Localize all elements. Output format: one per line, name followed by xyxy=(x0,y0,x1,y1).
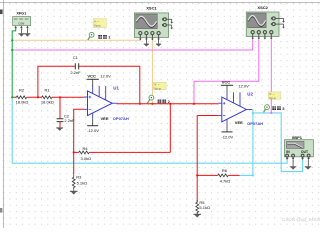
wire: magenta XSC2 pin2 to U1 output node xyxy=(194,40,259,104)
left edge watermark glyph bottom xyxy=(0,208,2,213)
wire: magenta input to XSC2 channel A xyxy=(12,40,253,51)
ground below R5 xyxy=(193,214,201,215)
node input to XSC1-A tap xyxy=(11,39,13,41)
svg-text:U1: U1 xyxy=(113,86,119,91)
bode plotter XBP1 xyxy=(285,140,314,157)
wire: red U2 minus input feedback xyxy=(197,116,218,214)
function generator XFG1 xyxy=(13,17,31,26)
node U1 output R4 tap xyxy=(169,103,171,105)
svg-text:OUT: OUT xyxy=(301,150,308,154)
ground below R3 xyxy=(70,191,78,192)
capacitor C1 xyxy=(75,63,78,69)
node R6 to output net xyxy=(252,174,254,176)
ground at XSC1 pin4 xyxy=(158,40,160,44)
svg-text:XFG1: XFG1 xyxy=(16,11,26,15)
svg-text:12.0V: 12.0V xyxy=(100,73,111,78)
node R4-R3 divider node xyxy=(73,151,75,153)
probe input1 xyxy=(88,37,90,41)
wire: cyan R6 right lead to U2 output vertical xyxy=(240,174,253,176)
wire: red input chain through R2 R1 to U1 plus input xyxy=(12,96,84,98)
oscilloscope XSC2 xyxy=(246,12,279,37)
node U1 output XSC2 tap xyxy=(193,103,195,105)
wire: red U1 output to U2 plus input xyxy=(118,103,219,105)
capacitor C2 xyxy=(57,119,64,122)
svg-text:XSC2: XSC2 xyxy=(257,5,268,10)
svg-text:R1: R1 xyxy=(44,88,50,93)
svg-text:12.0V: 12.0V xyxy=(238,83,249,88)
VEE supply U1 xyxy=(92,118,94,126)
svg-text:-12.0V: -12.0V xyxy=(221,135,233,140)
XFG1 pins xyxy=(15,26,17,28)
probe output2 xyxy=(147,99,150,103)
VCC supply U1 xyxy=(92,79,94,86)
node U2 output XSC2 tap xyxy=(270,112,272,114)
probe readout box input1 xyxy=(93,19,106,28)
wire: orange XSC1 channel B down to U1 output xyxy=(151,40,153,104)
wire: cyan input node down and across to XBP1 IN xyxy=(12,97,287,163)
probe label output3 xyxy=(272,106,276,110)
svg-text:18.0kΩ: 18.0kΩ xyxy=(41,100,54,105)
ground at XBP1 OUT minus xyxy=(307,160,309,167)
resistor R5 xyxy=(196,200,199,215)
probe output3 xyxy=(264,109,266,113)
node node B R1-C2 xyxy=(59,96,61,98)
wire: red R6 left lead from R5 node xyxy=(197,174,239,176)
op-amp U1 OP07AH xyxy=(88,91,113,116)
svg-text:-12.0V: -12.0V xyxy=(87,128,99,133)
node U1 output C1 feedback xyxy=(139,103,141,105)
VCC supply U2 xyxy=(226,85,228,92)
svg-text:XSC1: XSC1 xyxy=(146,6,157,11)
svg-text:R4: R4 xyxy=(82,146,88,151)
op-amp U2 OP07AH xyxy=(222,97,247,122)
svg-text:OP07AH: OP07AH xyxy=(247,121,263,126)
svg-text:VEE: VEE xyxy=(101,116,109,121)
svg-text:Vp-p:: Vp-p: xyxy=(94,24,101,28)
sheet border ruler top xyxy=(0,2,320,4)
wire: orange input to XSC1 channel A xyxy=(12,39,140,42)
svg-text:OP07AH: OP07AH xyxy=(113,116,129,121)
probe label input1 xyxy=(98,35,102,39)
wire: cyan U2 output net xyxy=(252,109,254,175)
svg-text:VCC: VCC xyxy=(87,73,96,78)
svg-text:U2: U2 xyxy=(247,92,253,97)
svg-text:2.2nF: 2.2nF xyxy=(70,70,81,75)
resistor R6 xyxy=(218,174,228,177)
wire: red U1 minus input feedback divider xyxy=(74,109,85,190)
node U1 output XSC1-B tap xyxy=(151,103,153,105)
svg-text:Vp-p:: Vp-p: xyxy=(154,86,161,90)
svg-text:4.7kΩ: 4.7kΩ xyxy=(220,179,231,184)
node R5-R6 divider node xyxy=(196,174,198,176)
wire: red C1 feedback loop xyxy=(38,66,140,104)
svg-text:C1: C1 xyxy=(73,55,79,60)
svg-text:R6: R6 xyxy=(222,168,228,173)
svg-text:VEE: VEE xyxy=(235,120,243,125)
ground at XBP1 IN minus xyxy=(292,160,294,167)
resistor R2 xyxy=(16,96,26,99)
node node A R2-R1-C1 xyxy=(37,96,39,98)
svg-text:CSDN @qq_54039720: CSDN @qq_54039720 xyxy=(282,217,320,222)
wire: green from XFG1 plus terminal down to R2 input node xyxy=(12,29,16,98)
VEE supply U2 xyxy=(226,124,228,131)
ruler tick marks top xyxy=(10,2,319,4)
resistor R1 xyxy=(42,96,52,99)
svg-text:2.2nF: 2.2nF xyxy=(64,118,75,123)
svg-text:VCC: VCC xyxy=(222,79,231,84)
ground at XFG1 minus xyxy=(26,29,28,33)
resistor R4 xyxy=(79,151,89,154)
resistor R3 xyxy=(72,175,75,190)
ruler tick marks left xyxy=(3,10,5,224)
svg-text:XBP1: XBP1 xyxy=(292,135,303,140)
sheet border ruler left xyxy=(2,0,4,228)
svg-text:18.0kΩ: 18.0kΩ xyxy=(16,100,29,105)
ground at XFG1 COM xyxy=(20,29,22,33)
ground at XSC1 pin2 xyxy=(145,40,147,44)
svg-text:COM: COM xyxy=(18,21,24,25)
node input node at R2 xyxy=(11,96,13,98)
oscilloscope XSC1 xyxy=(134,13,168,38)
node U2 output branch xyxy=(252,112,254,114)
svg-text:3.0kΩ: 3.0kΩ xyxy=(81,156,92,161)
probe label output2 xyxy=(158,100,162,104)
svg-text:5.1kΩ: 5.1kΩ xyxy=(199,205,210,210)
probe readout box output2 xyxy=(153,82,166,89)
left edge watermark glyph top xyxy=(0,10,3,15)
wire: red R4 leads xyxy=(74,104,171,153)
svg-text:5.1kΩ: 5.1kΩ xyxy=(77,181,88,186)
ground below C2 xyxy=(56,126,63,129)
wire: magenta XSC2 pin4 down to U2 output node xyxy=(270,40,272,113)
svg-text:R3: R3 xyxy=(76,175,82,180)
probe readout box output3 xyxy=(268,92,280,99)
wire: red C2 tap to ground xyxy=(59,97,61,127)
svg-text:R2: R2 xyxy=(19,88,25,93)
node input to XSC2-A tap xyxy=(11,49,13,51)
svg-text:Vp-p:: Vp-p: xyxy=(269,96,276,100)
